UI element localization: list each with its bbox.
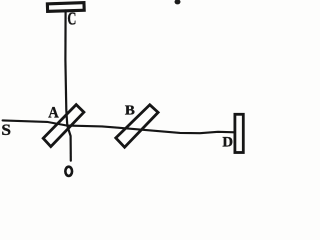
svg-text:C: C: [67, 9, 76, 29]
wire: beam from beamsplitter A down to observer O: [67, 126, 71, 161]
compensator plate B (tilted rectangle): [116, 105, 158, 147]
wire: beam from beamsplitter A up to mirror C (vertical): [65, 11, 67, 126]
beam splitter A (tilted rectangle): [43, 105, 84, 147]
ink speck (printing artifact, top): [175, 0, 181, 4]
label O: [65, 167, 72, 176]
wire: beam from source S through A and B to mirror D (horizontal, slightly sloped): [3, 120, 235, 133]
svg-text:A: A: [48, 105, 59, 122]
svg-text:B: B: [125, 103, 135, 118]
mirror D (right, vertical rectangle): [235, 114, 243, 152]
svg-text:S: S: [1, 122, 11, 139]
svg-text:D: D: [222, 135, 233, 151]
mirror C (top, horizontal rectangle): [47, 3, 84, 12]
